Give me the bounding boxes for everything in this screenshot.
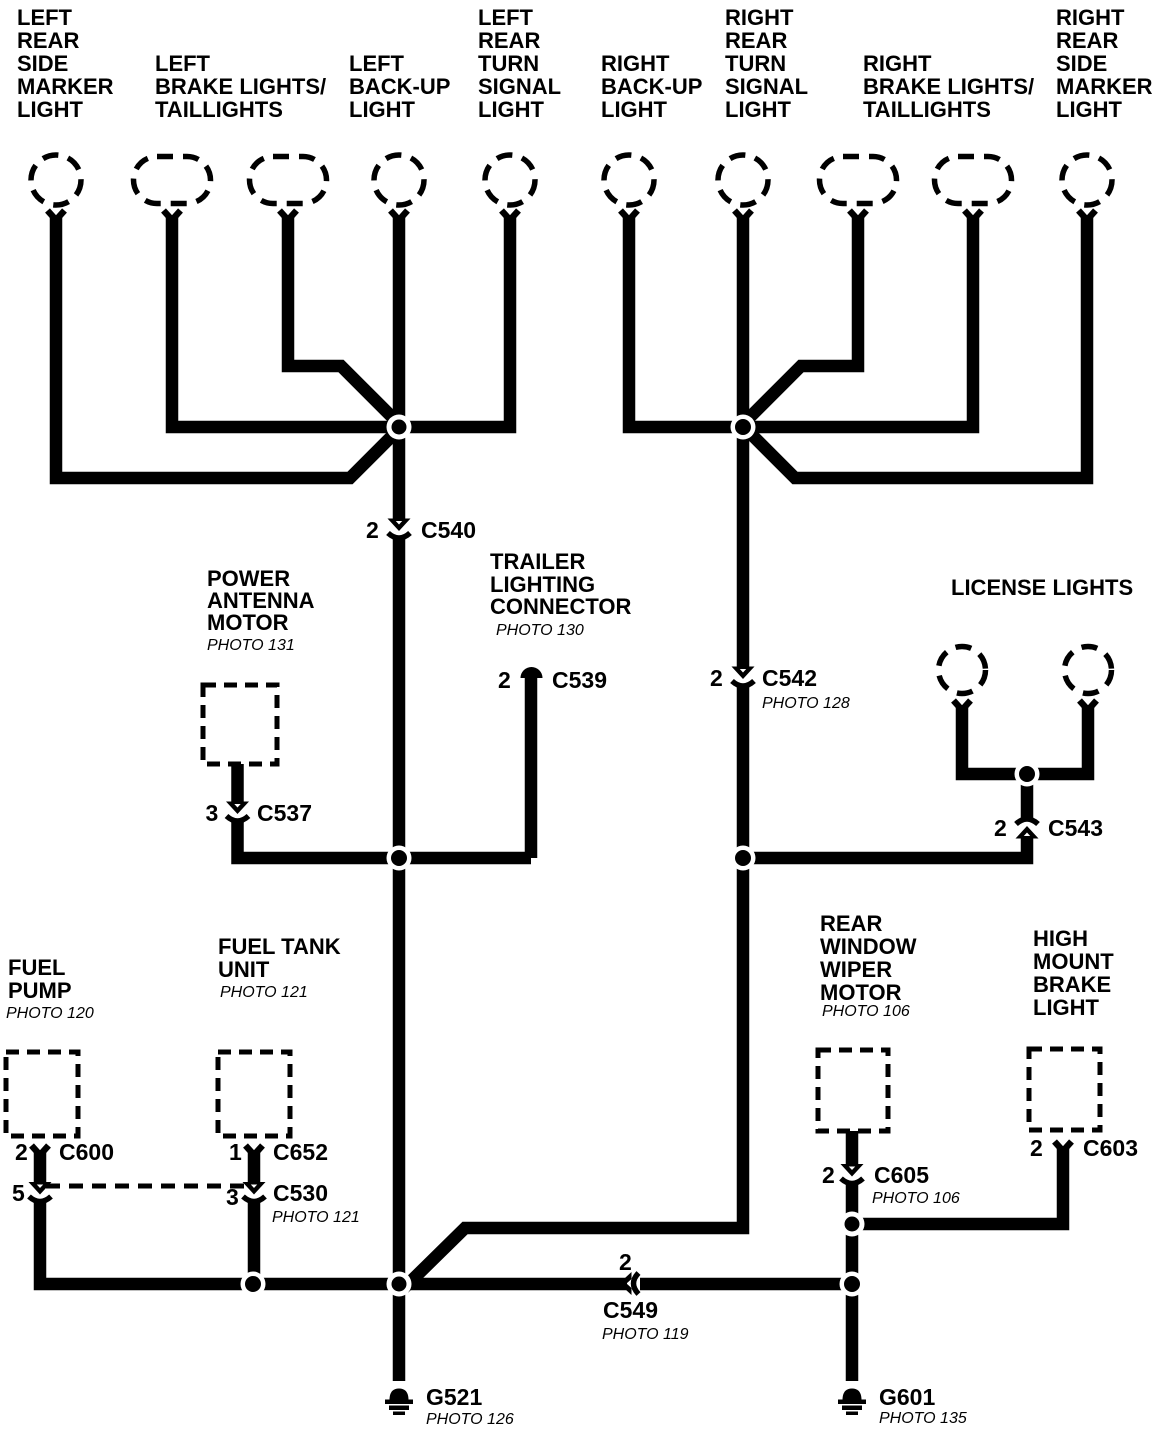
- svg-text:TRAILER: TRAILER: [490, 549, 585, 574]
- svg-text:1: 1: [229, 1139, 242, 1165]
- connector C549 inline: [619, 1272, 639, 1295]
- label left rear turn signal light: [478, 5, 561, 122]
- svg-text:PHOTO 128: PHOTO 128: [762, 695, 850, 712]
- svg-text:SIDE: SIDE: [17, 51, 68, 76]
- svg-text:LIGHT: LIGHT: [725, 97, 792, 122]
- lamp left rear side marker light: [31, 155, 81, 220]
- lamp right rear side marker light: [1062, 155, 1112, 220]
- node wiper ground junction: [840, 1272, 865, 1297]
- ground G521 symbol: [385, 1389, 413, 1416]
- wire bottom rail left of C549: [246, 1278, 627, 1291]
- svg-text:C530: C530: [273, 1180, 328, 1206]
- svg-text:PHOTO 131: PHOTO 131: [207, 637, 295, 654]
- lamp license light right: [1065, 647, 1112, 711]
- lamp left taillight: [250, 157, 327, 221]
- svg-text:LEFT: LEFT: [349, 51, 405, 76]
- svg-text:C605: C605: [874, 1162, 929, 1188]
- svg-text:C540: C540: [421, 517, 476, 543]
- wire C537 to left trunk and on to trailer connector drop: [238, 821, 532, 859]
- node right junction: [731, 415, 756, 440]
- component fuel tank unit box: [218, 1052, 290, 1136]
- wire fuel tank below C530 to bottom rail: [248, 1201, 261, 1284]
- svg-text:REAR: REAR: [478, 28, 540, 53]
- svg-text:LIGHT: LIGHT: [1033, 995, 1100, 1020]
- svg-text:LIGHT: LIGHT: [478, 97, 545, 122]
- svg-text:MARKER: MARKER: [1056, 74, 1153, 99]
- svg-text:CONNECTOR: CONNECTOR: [490, 594, 631, 619]
- svg-text:LIGHT: LIGHT: [601, 97, 668, 122]
- lamp right brake light: [820, 157, 897, 221]
- svg-text:5: 5: [12, 1180, 25, 1206]
- component high mount brake light box: [1029, 1049, 1100, 1130]
- svg-text:PHOTO 121: PHOTO 121: [272, 1209, 360, 1226]
- svg-text:LEFT: LEFT: [17, 5, 73, 30]
- label right back-up light: [601, 51, 702, 122]
- svg-text:G601: G601: [879, 1384, 935, 1410]
- svg-text:FUEL: FUEL: [8, 955, 65, 980]
- svg-text:BRAKE LIGHTS/: BRAKE LIGHTS/: [863, 74, 1034, 99]
- svg-text:2: 2: [366, 517, 379, 543]
- label fuel tank unit: [218, 934, 341, 982]
- svg-text:UNIT: UNIT: [218, 957, 270, 982]
- svg-text:HIGH: HIGH: [1033, 926, 1088, 951]
- component power antenna motor box: [203, 685, 277, 764]
- wire C543 up to license junction: [1021, 774, 1034, 820]
- wire right trunk C542 down around to main junction: [404, 686, 743, 1288]
- wire fuel tank unit branch: [248, 1150, 261, 1185]
- lamp left brake light: [134, 157, 211, 221]
- connector C542: [732, 667, 755, 687]
- svg-text:C539: C539: [552, 667, 607, 693]
- svg-text:WIPER: WIPER: [820, 957, 892, 982]
- label left back-up light: [349, 51, 450, 122]
- svg-text:2: 2: [15, 1139, 28, 1165]
- svg-text:REAR: REAR: [1056, 28, 1118, 53]
- connector C652: [246, 1146, 263, 1156]
- svg-text:SIDE: SIDE: [1056, 51, 1107, 76]
- svg-text:MARKER: MARKER: [17, 74, 114, 99]
- lamp right back-up light: [604, 155, 654, 220]
- connector C603: [1055, 1142, 1072, 1152]
- wire left back-up light down to C540: [393, 216, 406, 521]
- lamp left rear turn signal light: [485, 155, 535, 220]
- svg-text:BACK-UP: BACK-UP: [349, 74, 450, 99]
- svg-text:PHOTO 121: PHOTO 121: [220, 984, 308, 1001]
- component rear window wiper motor box: [818, 1050, 888, 1131]
- wire left taillights to left junction: [288, 216, 400, 425]
- svg-text:C549: C549: [603, 1297, 658, 1323]
- lamp license light left: [939, 647, 986, 711]
- wire left brake lights to left junction: [172, 216, 399, 427]
- svg-text:RIGHT: RIGHT: [1056, 5, 1125, 30]
- wire main left trunk C540 to ground G521: [393, 538, 406, 1381]
- svg-text:FUEL TANK: FUEL TANK: [218, 934, 341, 959]
- svg-text:2: 2: [994, 815, 1007, 841]
- svg-text:2: 2: [498, 667, 511, 693]
- wire bottom rail right of C549: [640, 1278, 852, 1291]
- svg-text:RIGHT: RIGHT: [725, 5, 794, 30]
- svg-text:PHOTO 106: PHOTO 106: [822, 1003, 910, 1020]
- connector pin 5 C530 fuel pump side: [29, 1182, 52, 1202]
- svg-text:2: 2: [822, 1162, 835, 1188]
- node left trunk / antenna-trailer tap: [387, 846, 412, 871]
- node wiper / high mount tap: [840, 1212, 865, 1237]
- label left rear side marker light: [17, 5, 114, 122]
- wire left rear turn signal to left junction: [399, 216, 510, 427]
- label right rear side marker light: [1056, 5, 1153, 122]
- svg-text:LIGHT: LIGHT: [17, 97, 84, 122]
- svg-text:BRAKE: BRAKE: [1033, 972, 1111, 997]
- svg-text:TAILLIGHTS: TAILLIGHTS: [155, 97, 283, 122]
- svg-text:LICENSE LIGHTS: LICENSE LIGHTS: [951, 575, 1133, 600]
- svg-text:REAR: REAR: [17, 28, 79, 53]
- svg-text:TURN: TURN: [725, 51, 786, 76]
- dashed link between fuel pump and fuel tank wires: [46, 1184, 248, 1189]
- wire right back-up light to right junction: [629, 216, 743, 427]
- svg-text:PHOTO 126: PHOTO 126: [426, 1411, 514, 1428]
- node main ground junction G521: [387, 1272, 412, 1297]
- label trailer lighting connector: [490, 549, 631, 619]
- svg-text:LEFT: LEFT: [478, 5, 534, 30]
- wire fuel pump branch: [34, 1150, 47, 1185]
- wire right taillights to right junction: [743, 216, 973, 427]
- label right brake lights/taillights: [863, 51, 1034, 122]
- wire right trunk to C543 branch: [743, 836, 1027, 858]
- node left junction: [387, 415, 412, 440]
- svg-text:G521: G521: [426, 1384, 482, 1410]
- svg-text:C537: C537: [257, 800, 312, 826]
- lamp right rear turn signal light: [718, 155, 768, 220]
- label power antenna motor: [207, 566, 315, 635]
- svg-text:2: 2: [1030, 1135, 1043, 1161]
- svg-text:REAR: REAR: [820, 911, 882, 936]
- lamp right taillight: [935, 157, 1012, 221]
- component fuel pump box: [6, 1052, 78, 1136]
- svg-text:WINDOW: WINDOW: [820, 934, 917, 959]
- svg-text:MOTOR: MOTOR: [820, 980, 902, 1005]
- svg-text:C543: C543: [1048, 815, 1103, 841]
- svg-text:RIGHT: RIGHT: [863, 51, 932, 76]
- svg-text:BRAKE LIGHTS/: BRAKE LIGHTS/: [155, 74, 326, 99]
- svg-text:BACK-UP: BACK-UP: [601, 74, 702, 99]
- svg-text:C603: C603: [1083, 1135, 1138, 1161]
- wire fuel pump below 5 connector to bottom rail: [40, 1201, 252, 1284]
- label high mount brake light: [1033, 926, 1114, 1020]
- svg-text:2: 2: [710, 665, 723, 691]
- svg-text:TAILLIGHTS: TAILLIGHTS: [863, 97, 991, 122]
- ground G601 symbol: [838, 1389, 866, 1416]
- node license lights junction: [1015, 762, 1040, 787]
- svg-text:RIGHT: RIGHT: [601, 51, 670, 76]
- wire rear window wiper motor to C605: [846, 1131, 859, 1167]
- svg-text:2: 2: [619, 1249, 632, 1275]
- svg-text:PHOTO 120: PHOTO 120: [6, 1005, 94, 1022]
- wire right rear turn signal down to C542: [737, 216, 750, 669]
- node right trunk / license tap: [731, 846, 756, 871]
- connector C539 terminal: [521, 667, 543, 678]
- svg-text:SIGNAL: SIGNAL: [478, 74, 561, 99]
- svg-text:PHOTO 119: PHOTO 119: [602, 1326, 689, 1343]
- svg-text:LIGHT: LIGHT: [1056, 97, 1123, 122]
- connector C530: [243, 1182, 266, 1202]
- wire right brake lights to right junction: [742, 216, 858, 425]
- lamp left back-up light: [374, 155, 424, 220]
- label rear window wiper motor: [820, 911, 917, 1005]
- wire left rear side marker to left junction: [56, 216, 401, 478]
- wire high mount brake light branch: [852, 1146, 1063, 1224]
- svg-text:3: 3: [206, 800, 219, 826]
- svg-text:MOTOR: MOTOR: [207, 610, 289, 635]
- svg-text:SIGNAL: SIGNAL: [725, 74, 808, 99]
- svg-text:C600: C600: [59, 1139, 114, 1165]
- connector C600: [32, 1146, 49, 1156]
- svg-text:PHOTO 135: PHOTO 135: [879, 1410, 967, 1427]
- wire license lights pair: [962, 705, 1088, 774]
- connector C543: [1016, 819, 1039, 839]
- label right rear turn signal light: [725, 5, 808, 122]
- svg-text:C652: C652: [273, 1139, 328, 1165]
- wire wiper drop C605 to ground G601: [846, 1183, 859, 1381]
- svg-text:LEFT: LEFT: [155, 51, 211, 76]
- svg-text:PUMP: PUMP: [8, 978, 72, 1003]
- label left brake lights/taillights: [155, 51, 326, 122]
- wire trailer lighting connector C539 drop: [525, 676, 538, 858]
- svg-text:LIGHT: LIGHT: [349, 97, 416, 122]
- svg-text:PHOTO 130: PHOTO 130: [496, 622, 584, 639]
- svg-text:C542: C542: [762, 665, 817, 691]
- svg-text:REAR: REAR: [725, 28, 787, 53]
- connector C540: [388, 519, 411, 539]
- svg-text:PHOTO 106: PHOTO 106: [872, 1190, 960, 1207]
- wire power antenna motor to C537: [231, 764, 244, 804]
- connector C537: [226, 802, 249, 822]
- connector C605: [841, 1164, 864, 1184]
- svg-text:3: 3: [226, 1184, 239, 1210]
- svg-text:TURN: TURN: [478, 51, 539, 76]
- svg-text:MOUNT: MOUNT: [1033, 949, 1114, 974]
- label fuel pump: [8, 955, 72, 1003]
- node fuel tank tap: [241, 1272, 266, 1297]
- wire right rear side marker to right junction: [741, 216, 1087, 478]
